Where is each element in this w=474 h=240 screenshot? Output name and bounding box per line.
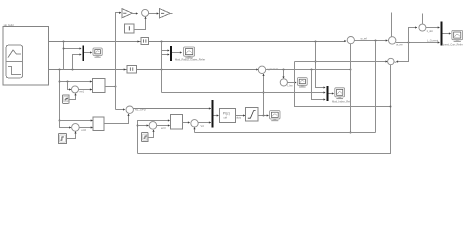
svg-text:w_ref: w_ref bbox=[361, 36, 368, 40]
sum SD bbox=[191, 120, 198, 127]
wire loop left vertical x294.8 bbox=[295, 62, 391, 107]
svg-text:Mod_Index_Ref: Mod_Index_Ref bbox=[332, 100, 351, 104]
wire free vertical into sum SH top bbox=[422, 13, 424, 24]
wire out1 y41 bbox=[48, 40, 346, 43]
svg-text:err3: err3 bbox=[161, 126, 166, 130]
sum SJ bbox=[347, 37, 354, 44]
block B bbox=[93, 117, 104, 131]
svg-text:ctrl: ctrl bbox=[224, 116, 228, 120]
wire B drop to sum SB bbox=[60, 121, 72, 129]
sum S1 bbox=[126, 106, 133, 113]
signal builder block bbox=[3, 27, 48, 86]
scope SC2A bbox=[184, 47, 195, 56]
wire A2 to sum SA bbox=[69, 93, 76, 99]
sum ST bbox=[142, 9, 149, 16]
wire block PID to saturation bbox=[235, 114, 245, 116]
wire sum SI output down x390.6 bbox=[138, 65, 392, 154]
svg-text:sig_build: sig_build bbox=[4, 24, 14, 27]
svg-text:Speed_Curr_Refer: Speed_Curr_Refer bbox=[442, 43, 463, 46]
wire sum SF to scope SC2B bbox=[287, 81, 296, 83]
scope SC1 bbox=[93, 48, 102, 56]
wire y69.8 tap to mux M1 input2 bbox=[73, 53, 82, 69]
wire vertical x375.9 bbox=[375, 41, 377, 133]
svg-text:duty: duty bbox=[236, 116, 242, 120]
wire to sum SC left bbox=[138, 124, 149, 126]
wire vertical x115.4 bbox=[116, 13, 121, 110]
svg-text:L_Current: L_Current bbox=[427, 40, 438, 43]
wire sum S1 to mux MD input1 bbox=[133, 107, 211, 109]
wire gain K1 to sum ST bbox=[132, 12, 138, 14]
wire block C to sum SD bbox=[183, 121, 190, 123]
wire constant C1 to sum ST bbox=[134, 17, 147, 30]
mux M4 bbox=[441, 22, 443, 46]
mux M3 bbox=[327, 86, 329, 101]
wire mux M2 input1 bbox=[162, 49, 170, 51]
wire sum SJ to sum SG bbox=[354, 39, 387, 41]
rate transition block RT1 bbox=[141, 38, 149, 45]
scope SC3B bbox=[335, 88, 345, 97]
mux M1 bbox=[82, 45, 84, 61]
wire sum SD to mux MD input2 bbox=[198, 121, 211, 123]
sum SI bbox=[388, 58, 394, 64]
svg-text:err1: err1 bbox=[80, 89, 85, 93]
wire sum SD bottom input bbox=[193, 127, 195, 132]
svg-text:PI(z): PI(z) bbox=[223, 112, 230, 116]
wire drop x311.7 to mux M3 input3 bbox=[312, 70, 326, 101]
wire A input1 y81.7 bbox=[60, 80, 93, 82]
wire down x408.1 to sum SI right bbox=[396, 43, 409, 63]
wire up x408.1 to sum SH bbox=[409, 26, 418, 42]
svg-text:1_dot: 1_dot bbox=[427, 30, 434, 33]
wire y61.8 into sum SI left bbox=[295, 60, 388, 62]
wire bottom line y132.3 bbox=[195, 132, 376, 134]
sum SB bbox=[72, 124, 80, 132]
wire sum SA to block A input2 bbox=[79, 88, 93, 90]
constant block C1 bbox=[125, 24, 135, 33]
wire B input1 y120.6 bbox=[60, 119, 93, 121]
wire mux MD to block PID bbox=[213, 114, 218, 116]
wire x115.4 corner into sum S1 bbox=[116, 108, 126, 110]
saturation block SAT bbox=[246, 107, 258, 121]
wire into gain K1 bbox=[119, 12, 121, 14]
wire mux M2 input2 bbox=[162, 53, 170, 55]
block A bbox=[92, 79, 104, 93]
wire sum SH to mux M4 input1 bbox=[426, 26, 440, 28]
block PID bbox=[220, 108, 236, 122]
block C bbox=[171, 115, 183, 129]
wire sum SE output y69.8 bbox=[266, 69, 352, 71]
wire vertical x137.7 from bottom line bbox=[137, 119, 170, 153]
wire C2 to sum SC bbox=[148, 130, 154, 138]
source block B2 bbox=[58, 134, 66, 144]
mux M2 bbox=[170, 46, 172, 61]
wire sum SB to block B input2 bbox=[79, 126, 93, 128]
wire vertical x315.6 from y41 to mux M3 input1 bbox=[315, 42, 326, 89]
svg-text:Ierr: Ierr bbox=[394, 61, 398, 64]
wire saturation to scope SC3A bbox=[258, 114, 269, 116]
wire mux M2 to scope SC2A bbox=[172, 51, 182, 53]
sum SF bbox=[280, 79, 287, 86]
mux MD bbox=[211, 100, 213, 128]
source block A2 bbox=[63, 95, 70, 103]
sum SE bbox=[258, 66, 265, 73]
wire drop to sum SF bbox=[282, 70, 284, 79]
rate transition block RT2 bbox=[127, 66, 137, 73]
wire sum SC to block C input2 bbox=[157, 124, 170, 126]
wire y92 to mux M3 input2 bbox=[162, 91, 326, 93]
wire mux M3 to scope SC3B bbox=[329, 92, 334, 94]
sum SC bbox=[149, 122, 157, 130]
wire sum ST to gain K2 bbox=[149, 12, 159, 14]
sum SH bbox=[419, 24, 426, 31]
wire vertical x161.9 tap bbox=[161, 42, 163, 93]
scope SC4 bbox=[452, 30, 463, 39]
wire free vertical into sum SG top bbox=[391, 12, 393, 36]
wire B2 to sum SB bbox=[67, 131, 77, 138]
svg-text:I_Inv: I_Inv bbox=[287, 84, 294, 88]
source block C2 bbox=[142, 133, 149, 142]
svg-text:err2: err2 bbox=[81, 128, 86, 132]
wire out2 y69.8 bbox=[48, 68, 258, 70]
scope SC2B bbox=[297, 78, 307, 86]
sum SA bbox=[72, 86, 79, 93]
wire mux M1 to scope SC1 bbox=[84, 51, 92, 53]
wire sum SJ bottom vertical bbox=[350, 44, 352, 134]
wire vertical x59.7 out2 drop bbox=[59, 70, 61, 122]
wire y41 tap to mux M1 input1 bbox=[63, 42, 82, 70]
gain K1 bbox=[122, 9, 132, 18]
wire mux M4 to scope SC4 bbox=[443, 32, 451, 34]
gain K2 bbox=[160, 9, 173, 18]
wire saturation feedback up to sum SE bbox=[262, 74, 264, 116]
scope SC3A bbox=[270, 111, 280, 119]
sum SG bbox=[389, 37, 396, 44]
svg-text:Mod_Ratio2_Gates_Refer: Mod_Ratio2_Gates_Refer bbox=[175, 58, 205, 62]
wire A junction drop to sum SA bbox=[68, 82, 72, 91]
wire block B output to sum S1 bbox=[104, 114, 130, 124]
wire sum SG to mux M4 input2 bbox=[396, 41, 440, 43]
wire block A output bbox=[105, 86, 117, 88]
svg-text:Vd: Vd bbox=[201, 124, 205, 128]
